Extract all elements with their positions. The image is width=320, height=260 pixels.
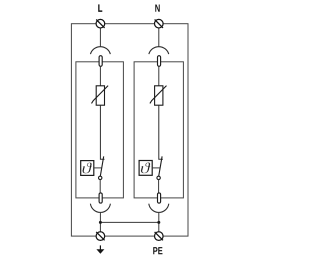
plug pin top right — [158, 56, 161, 67]
junction node left — [99, 221, 102, 224]
thermal sensor box right — [139, 161, 152, 176]
varistor MOV2 — [155, 86, 163, 105]
plug-in socket arc top left — [90, 47, 110, 55]
PE bus wire between junctions — [100, 221, 158, 223]
wire L terminal to plug arc — [99, 28, 101, 47]
plug pin bottom right — [158, 193, 161, 203]
switch pivot contact right — [157, 176, 160, 179]
terminal earth left — [96, 232, 105, 241]
plug pin bottom left — [99, 193, 102, 203]
thermal sensor box left — [81, 161, 94, 176]
link thermal box to blade left — [94, 167, 102, 169]
terminal L — [96, 19, 105, 28]
junction node right — [157, 221, 160, 224]
wire N terminal to plug arc — [158, 28, 160, 47]
wire pin to varistor MOV1 — [99, 66, 101, 86]
switch pivot contact left — [99, 176, 102, 179]
wire pivot to bottom pin left — [99, 180, 101, 193]
wire varistor to disconnector contact — [100, 105, 104, 159]
plug-in socket arc top right — [149, 47, 169, 55]
plug-in socket arc bottom left — [90, 204, 110, 213]
label PE — [153, 247, 162, 254]
wire pin to varistor MOV2 — [158, 66, 160, 86]
module 1 box — [76, 62, 124, 198]
label L — [98, 5, 102, 12]
label N — [155, 5, 159, 12]
theta symbol left — [82, 162, 92, 173]
terminal PE — [155, 232, 164, 241]
wire arc to PE terminal right — [158, 212, 160, 231]
thermal disconnector switch blade right — [159, 156, 162, 176]
earth arrow — [99, 245, 101, 249]
terminal N — [155, 19, 164, 28]
plug-in socket arc bottom right — [149, 204, 169, 213]
varistor MOV1 — [96, 86, 104, 105]
wire arc to earth terminal left — [99, 212, 101, 231]
plug pin top left — [99, 56, 102, 67]
module 2 box — [134, 62, 183, 198]
thermal disconnector switch blade left — [100, 156, 103, 176]
wire pivot to bottom pin right — [158, 180, 160, 193]
wire varistor to disconnector contact right — [159, 105, 163, 159]
enclosure box — [71, 24, 188, 236]
theta symbol right — [141, 162, 151, 173]
link thermal box to blade right — [152, 167, 160, 169]
